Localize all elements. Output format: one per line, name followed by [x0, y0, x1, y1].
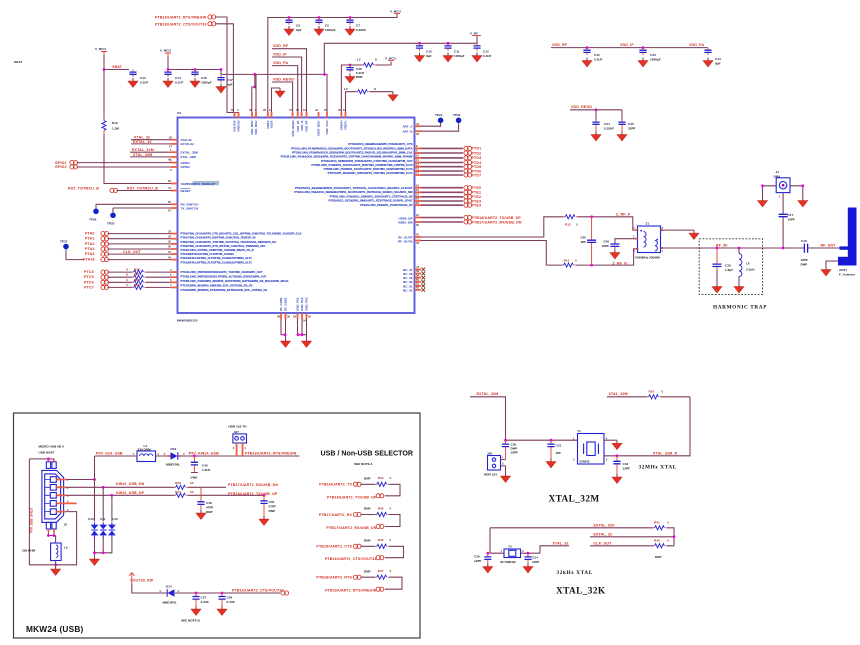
svg-text:TP27: TP27 [60, 240, 68, 244]
svg-text:PTB18/UART2_TX/USB_DP: PTB18/UART2_TX/USB_DP [228, 492, 278, 496]
svg-text:DNP: DNP [364, 507, 371, 511]
svg-text:NC_62: NC_62 [403, 288, 413, 292]
svg-text:U12: U12 [112, 517, 118, 521]
svg-text:28: 28 [263, 108, 266, 112]
svg-text:2: 2 [126, 283, 128, 287]
svg-text:C10: C10 [426, 50, 432, 54]
svg-text:ANT_A: ANT_A [402, 125, 413, 129]
svg-text:VDD_RF: VDD_RF [273, 44, 289, 48]
svg-text:1PF: 1PF [580, 240, 586, 244]
svg-text:KW24_USB_DN: KW24_USB_DN [116, 482, 145, 486]
svg-text:C6: C6 [296, 24, 300, 28]
svg-text:11: 11 [416, 158, 419, 162]
svg-text:62: 62 [416, 286, 419, 290]
svg-text:16: 16 [416, 188, 419, 192]
svg-text:6: 6 [255, 108, 257, 112]
svg-text:R12: R12 [112, 121, 118, 125]
svg-text:PTD2/LLWU_P13&P9/ADC0_SE20&SPI: PTD2/LLWU_P13&P9/ADC0_SE20&SPI0_BOUT/UAR… [292, 151, 412, 155]
svg-text:PTD7: PTD7 [472, 173, 482, 177]
svg-text:PTA2: PTA2 [85, 242, 95, 246]
svg-text:1: 1 [245, 446, 247, 450]
svg-text:PTC4/LLWU_P8/PCS0/PCS0/UART1_T: PTC4/LLWU_P8/PCS0/PCS0/UART1_TX/FTM0_CH3… [181, 270, 263, 274]
svg-text:EXTAL_32: EXTAL_32 [594, 532, 613, 536]
svg-text:C44: C44 [715, 57, 721, 61]
svg-text:PTD3: PTD3 [472, 156, 482, 160]
svg-text:Z_RF_P: Z_RF_P [616, 212, 631, 216]
svg-text:VREFL: VREFL [344, 120, 348, 130]
svg-text:V_MCU: V_MCU [160, 49, 172, 53]
svg-text:R34: R34 [175, 490, 181, 494]
svg-text:1.0UF: 1.0UF [202, 468, 211, 472]
svg-text:1000pF: 1000pF [325, 28, 336, 32]
svg-text:PTB17/UART2_RX/USB_DN: PTB17/UART2_RX/USB_DN [326, 526, 376, 530]
svg-text:CLK_OUT: CLK_OUT [123, 250, 142, 254]
svg-text:VDD_REGD: VDD_REGD [571, 105, 592, 109]
svg-text:PTA18/EXTAL0/FTM0_FLT2/FTM_CLK: PTA18/EXTAL0/FTM0_FLT2/FTM_CLKIN0 [181, 252, 235, 256]
svg-text:VDD_IF: VDD_IF [273, 52, 287, 56]
svg-text:PTB16/UART2_CTS/VOUT33: PTB16/UART2_CTS/VOUT33 [325, 557, 377, 561]
svg-text:C40: C40 [202, 464, 208, 468]
svg-text:34: 34 [168, 234, 171, 238]
svg-text:XTAL_32M: XTAL_32M [549, 495, 600, 505]
svg-text:1000pF: 1000pF [454, 54, 465, 58]
svg-text:XTAL_32M: XTAL_32M [181, 155, 197, 159]
svg-text:VSSA: VSSA [270, 120, 274, 129]
svg-text:VDD_IF: VDD_IF [620, 43, 634, 47]
svg-text:10PF: 10PF [788, 218, 796, 222]
svg-text:R47: R47 [378, 569, 384, 573]
svg-text:Y2: Y2 [508, 545, 512, 549]
svg-text:R13: R13 [565, 222, 571, 226]
svg-text:EXTAL32: EXTAL32 [181, 142, 194, 146]
svg-text:J27: J27 [234, 430, 239, 434]
svg-text:C42: C42 [594, 53, 600, 57]
svg-text:3: 3 [606, 457, 608, 461]
svg-text:0: 0 [576, 222, 578, 226]
svg-text:1: 1 [501, 549, 503, 553]
svg-text:12PF: 12PF [474, 559, 482, 563]
svg-text:PTB18/UART2_CTS/VOUT33: PTB18/UART2_CTS/VOUT33 [155, 22, 207, 26]
svg-text:D14: D14 [166, 585, 172, 589]
svg-text:1: 1 [133, 452, 135, 456]
svg-text:P5V_K24_USB: P5V_K24_USB [96, 451, 123, 455]
svg-text:PTC7: PTC7 [84, 285, 94, 289]
svg-text:PTA19/XTAL0/FTM1_FLT0/FTM_CLKI: PTA19/XTAL0/FTM1_FLT0/FTM_CLKIN1/LPTMR0_… [181, 256, 253, 260]
svg-text:C36: C36 [269, 500, 275, 504]
svg-text:EXTAL_32M: EXTAL_32M [132, 148, 154, 152]
svg-text:51: 51 [303, 108, 306, 112]
svg-text:R46: R46 [378, 538, 384, 542]
svg-text:PTB16/UART2_CTS/VOUT33: PTB16/UART2_CTS/VOUT33 [232, 588, 284, 592]
svg-text:TX_SWITCH: TX_SWITCH [181, 206, 199, 210]
svg-text:XTAL_32: XTAL_32 [553, 541, 569, 545]
svg-text:3: 3 [633, 249, 635, 253]
svg-text:52: 52 [296, 108, 299, 112]
svg-text:4: 4 [170, 268, 172, 272]
svg-text:1: 1 [502, 455, 504, 459]
svg-text:C39: C39 [725, 264, 731, 268]
svg-text:PTD3/LLWU_P14&ADC0_SE21&SPI0_P: PTD3/LLWU_P14&ADC0_SE21&SPI0_PCS1/UART2_… [281, 155, 413, 159]
svg-text:63: 63 [338, 108, 341, 112]
svg-text:R44: R44 [378, 476, 384, 480]
svg-text:2.2nH: 2.2nH [746, 268, 755, 272]
svg-text:V_MCU: V_MCU [390, 10, 402, 14]
svg-text:39: 39 [287, 315, 290, 319]
svg-text:9: 9 [416, 149, 418, 153]
svg-text:HDR 1X2: HDR 1X2 [484, 473, 497, 477]
svg-text:PTD4/ADC0_SE6B&SPI0_PCS2/UART0: PTD4/ADC0_SE6B&SPI0_PCS2/UART0_CTS/FTM0_… [321, 159, 413, 163]
svg-text:GPIO1: GPIO1 [55, 161, 67, 165]
svg-text:PTC5: PTC5 [84, 275, 94, 279]
svg-text:PTD6/LLWU_P15/SPI1_SOUT/UART0_: PTD6/LLWU_P15/SPI1_SOUT/UART0_RX/FTM0_CH… [324, 167, 413, 171]
svg-text:C11: C11 [454, 50, 460, 54]
svg-text:VDD_REGD: VDD_REGD [273, 77, 294, 81]
svg-text:PTC6: PTC6 [84, 280, 94, 284]
svg-text:DNP: DNP [356, 75, 363, 79]
svg-text:R29: R29 [134, 283, 140, 287]
svg-text:PTA3: PTA3 [85, 247, 95, 251]
svg-text:30: 30 [249, 108, 252, 112]
svg-text:26: 26 [169, 135, 172, 139]
svg-text:PTB17/UART2_RX/USB_DN: PTB17/UART2_RX/USB_DN [228, 483, 278, 487]
svg-text:C13: C13 [140, 76, 146, 80]
svg-text:33: 33 [168, 229, 171, 233]
svg-text:C43: C43 [650, 53, 656, 57]
svg-text:32kHz XTAL: 32kHz XTAL [557, 570, 593, 576]
svg-text:SEE NOTE B: SEE NOTE B [181, 619, 201, 623]
svg-text:PTE1: PTE1 [472, 191, 482, 195]
svg-text:330 OHM: 330 OHM [22, 549, 36, 553]
svg-text:PTB18/UART2_TX/USB_DP: PTB18/UART2_TX/USB_DP [472, 216, 522, 220]
svg-text:3: 3 [126, 278, 128, 282]
svg-text:C46: C46 [603, 239, 609, 243]
svg-text:RF_ANT: RF_ANT [821, 244, 837, 248]
svg-text:RF_GND1: RF_GND1 [279, 297, 283, 311]
svg-text:RF_GND2: RF_GND2 [284, 297, 288, 311]
svg-text:DNP: DNP [364, 569, 371, 573]
svg-text:HARMONIC TRAP: HARMONIC TRAP [713, 305, 767, 311]
svg-text:0.1UF: 0.1UF [483, 54, 492, 58]
svg-text:PTE4/LLWU_P2&SPI1_PCS0/TRACE_D: PTE4/LLWU_P2&SPI1_PCS0/TRACE_D0 [360, 203, 413, 207]
svg-text:4: 4 [237, 108, 239, 112]
svg-text:TP26: TP26 [89, 218, 97, 222]
svg-text:PTD1/LLWU_P14&P6/ADC0_SE19&SPI: PTD1/LLWU_P14&P6/ADC0_SE19&SPI0_BOUT/UAR… [291, 147, 412, 151]
svg-text:PTB19/UART2_CTS: PTB19/UART2_CTS [316, 545, 352, 549]
svg-text:V_MCU: V_MCU [95, 47, 107, 51]
svg-text:4: 4 [633, 226, 635, 230]
svg-text:U11: U11 [100, 517, 106, 521]
svg-text:RESET: RESET [181, 189, 191, 193]
svg-text:C27: C27 [201, 596, 207, 600]
svg-text:44: 44 [416, 122, 419, 126]
svg-text:ANT1: ANT1 [839, 268, 847, 272]
svg-text:C33: C33 [623, 462, 629, 466]
svg-text:GND_PA2: GND_PA2 [300, 297, 304, 311]
svg-text:PTC7/CMP0_IN1/SPI0_SIN/USB_SOF: PTC7/CMP0_IN1/SPI0_SIN/USB_SOF_OUT/I2S0_… [181, 284, 253, 288]
svg-text:10PF: 10PF [511, 450, 519, 454]
svg-text:8pF: 8pF [296, 28, 302, 32]
svg-text:0: 0 [662, 389, 664, 393]
svg-text:VDD_MCU: VDD_MCU [254, 121, 258, 135]
svg-text:43: 43 [416, 241, 419, 245]
svg-text:C12: C12 [483, 50, 489, 54]
svg-text:32PF: 32PF [628, 127, 636, 131]
svg-text:PTA19/XTAL0/FTM1_FLT0/FTM_CLKI: PTA19/XTAL0/FTM1_FLT0/FTM_CLKIN1/LPTMR0_… [181, 260, 253, 264]
svg-text:A: A [164, 452, 166, 456]
svg-text:PTE3/ADC1_SE7&SPI1_SIN/UART1_R: PTE3/ADC1_SE7&SPI1_SIN/UART1_RTS/TRACE_D… [328, 199, 412, 203]
svg-text:60: 60 [416, 277, 419, 281]
svg-text:330 OHM: 330 OHM [138, 448, 152, 452]
svg-text:57: 57 [289, 108, 292, 112]
svg-text:1000pF: 1000pF [201, 81, 212, 85]
svg-text:C31: C31 [556, 443, 562, 447]
svg-text:USB HOST: USB HOST [39, 451, 55, 455]
svg-text:TAMPER/RTC_WAKEUP: TAMPER/RTC_WAKEUP [181, 182, 216, 186]
svg-text:DNP: DNP [269, 509, 276, 513]
svg-text:33: 33 [190, 481, 194, 485]
svg-text:L6: L6 [746, 262, 750, 266]
svg-text:32MHz XTAL: 32MHz XTAL [639, 465, 677, 471]
svg-text:MICRO USB AB 5: MICRO USB AB 5 [39, 445, 65, 449]
svg-text:PTB18/UART2_RTS: PTB18/UART2_RTS [316, 576, 352, 580]
svg-text:12: 12 [416, 162, 419, 166]
svg-text:PTA18: PTA18 [83, 258, 95, 262]
svg-text:DNP: DNP [364, 477, 371, 481]
svg-text:PTA4: PTA4 [85, 252, 95, 256]
svg-text:40: 40 [168, 255, 171, 259]
svg-text:2: 2 [233, 446, 235, 450]
svg-text:PTA4/LLWU_P3/TSI0_CH5/FTM0_CH1: PTA4/LLWU_P3/TSI0_CH5/FTM0_CH1/NMI_B/EZP… [181, 248, 254, 252]
svg-text:46: 46 [416, 132, 419, 136]
svg-text:36: 36 [168, 245, 171, 249]
svg-text:MKW24D512V: MKW24D512V [177, 319, 199, 323]
svg-text:TP21: TP21 [435, 113, 443, 117]
svg-text:GND: GND [191, 476, 199, 480]
svg-text:C48: C48 [206, 501, 212, 505]
svg-text:38: 38 [277, 315, 280, 319]
svg-text:3: 3 [522, 549, 524, 553]
svg-text:55: 55 [324, 108, 327, 112]
svg-text:C7: C7 [356, 24, 360, 28]
svg-text:DNP: DNP [206, 510, 213, 514]
svg-text:VDD_IF: VDD_IF [300, 120, 304, 131]
svg-text:12PF: 12PF [623, 467, 631, 471]
svg-text:65: 65 [168, 200, 171, 204]
svg-text:Z_RF_N: Z_RF_N [612, 261, 627, 265]
svg-text:PTE4: PTE4 [472, 204, 482, 208]
svg-text:GPIO1: GPIO1 [181, 161, 191, 165]
svg-text:CLK_OUT: CLK_OUT [594, 541, 613, 545]
svg-text:20: 20 [416, 223, 419, 227]
svg-text:2.2UF: 2.2UF [201, 600, 210, 604]
svg-text:12PF: 12PF [532, 560, 540, 564]
svg-text:A: A [178, 589, 180, 593]
svg-text:VDD_PA: VDD_PA [273, 61, 288, 65]
svg-text:9: 9 [126, 268, 128, 272]
svg-text:42: 42 [416, 233, 419, 237]
svg-text:0.1UF: 0.1UF [594, 58, 603, 62]
svg-text:8pF: 8pF [227, 83, 233, 87]
svg-text:PTE0: PTE0 [472, 186, 482, 190]
svg-text:RF_OUTN: RF_OUTN [398, 239, 412, 243]
svg-text:R14: R14 [564, 258, 570, 262]
svg-text:D16: D16 [171, 447, 177, 451]
svg-text:VBAT_MCU: VBAT_MCU [317, 121, 321, 137]
svg-text:DNP: DNP [655, 555, 662, 559]
svg-text:PTA0: PTA0 [85, 232, 95, 236]
svg-text:10: 10 [416, 154, 419, 158]
svg-text:J5: J5 [64, 523, 68, 527]
svg-text:PTE0/ADC1_SE4&SE16/SPI1_PCS1/U: PTE0/ADC1_SE4&SE16/SPI1_PCS1/UART1_TX/TR… [295, 186, 413, 190]
svg-text:GND_PA3: GND_PA3 [305, 297, 309, 311]
svg-text:R26: R26 [134, 268, 140, 272]
svg-text:3: 3 [170, 168, 172, 172]
svg-text:EXTAL_32: EXTAL_32 [133, 140, 152, 144]
svg-text:53: 53 [293, 315, 296, 319]
svg-text:14: 14 [416, 171, 419, 175]
svg-text:TP25: TP25 [107, 222, 115, 226]
svg-text:KW24_USB_DP: KW24_USB_DP [116, 491, 145, 495]
svg-text:VDD_RF: VDD_RF [552, 43, 568, 47]
svg-text:PTA3/TSI0_CH4/UART0_RTS_B/FTM0: PTA3/TSI0_CH4/UART0_RTS_B/FTM0_CH0/JTAG_… [181, 244, 267, 248]
svg-text:U10: U10 [88, 517, 94, 521]
svg-text:GPIO2: GPIO2 [181, 165, 191, 169]
svg-text:VDD_REGD: VDD_REGD [291, 121, 295, 137]
svg-text:C28: C28 [227, 596, 233, 600]
svg-text:PTB16/UART2_RTS/VREGIN: PTB16/UART2_RTS/VREGIN [325, 589, 377, 593]
svg-text:C46: C46 [201, 76, 207, 80]
svg-text:XTAL_32K: XTAL_32K [556, 587, 606, 597]
svg-text:PTA2/TSI0_CH3/UART0_TX/FTM0_CH: PTA2/TSI0_CH3/UART0_TX/FTM0_CH7/JTAG_TDO… [181, 240, 278, 244]
svg-text:C: C [183, 452, 185, 456]
svg-text:8pF: 8pF [426, 54, 432, 58]
svg-text:17: 17 [416, 193, 419, 197]
svg-text:PTB16/UART2_TX: PTB16/UART2_TX [319, 483, 352, 487]
svg-text:PTC6/LLWU_P10/CMP0_IN0/SPI0_SO: PTC6/LLWU_P10/CMP0_IN0/SPI0_SOUT/PDB0_EX… [181, 279, 289, 283]
svg-text:PTE2/LLWU_P1&ADC1_SE6/SPI1_SCK: PTE2/LLWU_P1&ADC1_SE6/SPI1_SCK/UART1_CTS… [330, 194, 413, 198]
svg-text:PTA1/TSI0_CH2/UART0_RX/FTM0_CH: PTA1/TSI0_CH2/UART0_RX/FTM0_CH6/JTAG_TDI… [181, 236, 256, 240]
svg-text:54: 54 [303, 319, 306, 323]
svg-text:HEAT: HEAT [14, 60, 22, 64]
svg-text:VDD_RF: VDD_RF [305, 120, 309, 132]
svg-text:DNP: DNP [801, 262, 808, 266]
svg-text:18: 18 [416, 197, 419, 201]
svg-text:5: 5 [170, 273, 172, 277]
svg-text:VDD_PA: VDD_PA [689, 43, 704, 47]
svg-text:1.8pF: 1.8pF [725, 268, 733, 272]
svg-text:61: 61 [416, 282, 419, 286]
svg-text:V_RF: V_RF [470, 32, 478, 36]
svg-text:15: 15 [416, 183, 419, 187]
svg-text:L6: L6 [64, 546, 68, 550]
svg-text:TP22: TP22 [453, 113, 461, 117]
svg-text:R33: R33 [175, 481, 181, 485]
svg-text:C34: C34 [604, 122, 610, 126]
svg-text:EXTAL_32K: EXTAL_32K [594, 523, 616, 527]
svg-text:GND_PA1: GND_PA1 [296, 297, 300, 311]
svg-text:37: 37 [168, 250, 171, 254]
svg-text:0: 0 [667, 539, 669, 543]
svg-text:21: 21 [416, 213, 419, 217]
svg-text:32.768KHZ: 32.768KHZ [500, 560, 516, 564]
svg-text:PTC0/CMP0_IN0/SPI0_PCS4/PDB0_E: PTC0/CMP0_IN0/SPI0_PCS4/PDB0_EXTRG/USB_S… [181, 288, 268, 292]
svg-text:47PF: 47PF [206, 506, 214, 510]
svg-text:F_Antenna: F_Antenna [839, 273, 855, 277]
svg-text:MKW24 (USB): MKW24 (USB) [26, 624, 84, 634]
svg-text:47PF: 47PF [269, 505, 277, 509]
svg-text:55: 55 [308, 315, 311, 319]
svg-text:P5V_KW24_USB: P5V_KW24_USB [189, 451, 219, 455]
svg-text:1: 1 [170, 148, 172, 152]
svg-text:ANT_B: ANT_B [402, 129, 413, 133]
svg-text:C18: C18 [801, 239, 807, 243]
svg-text:MBE1P0L: MBE1P0L [166, 462, 180, 466]
svg-text:PTA1: PTA1 [85, 237, 95, 241]
svg-text:13: 13 [416, 167, 419, 171]
svg-text:R28: R28 [134, 278, 140, 282]
svg-text:Y1: Y1 [577, 429, 581, 433]
svg-text:27: 27 [169, 145, 172, 149]
svg-text:PTB16/UART2_RTS/VREGIN: PTB16/UART2_RTS/VREGIN [245, 451, 297, 455]
svg-text:USB0_DM: USB0_DM [398, 221, 413, 225]
svg-text:C35: C35 [628, 122, 634, 126]
svg-text:10PF: 10PF [602, 244, 610, 248]
svg-text:9: 9 [269, 108, 271, 112]
svg-text:2400MHz 50OHM: 2400MHz 50OHM [635, 256, 660, 260]
svg-text:2: 2 [170, 158, 172, 162]
svg-text:HDR 1X2 TH: HDR 1X2 TH [228, 425, 247, 429]
svg-text:47: 47 [416, 265, 419, 269]
svg-text:GPIO2: GPIO2 [55, 165, 67, 169]
svg-text:R41: R41 [654, 520, 660, 524]
svg-text:VREGIN: VREGIN [237, 121, 241, 132]
svg-text:0: 0 [375, 58, 377, 62]
svg-text:PTD0/ADC0_SE8&BIAS&SPI0_PCS4/U: PTD0/ADC0_SE8&BIAS&SPI0_PCS4/UART1_CTS [348, 142, 412, 146]
svg-text:67: 67 [168, 209, 171, 213]
svg-text:58: 58 [416, 269, 419, 273]
svg-text:PTC4: PTC4 [84, 270, 94, 274]
svg-text:2: 2 [158, 452, 160, 456]
svg-text:PTB17/UART2_RX/USB_DN: PTB17/UART2_RX/USB_DN [472, 220, 522, 224]
svg-text:Z1: Z1 [646, 222, 650, 226]
svg-text:PTB17/UART2_RX: PTB17/UART2_RX [319, 513, 353, 517]
svg-text:2: 2 [502, 462, 504, 466]
svg-text:0.33UF: 0.33UF [356, 28, 366, 32]
svg-text:C17: C17 [788, 213, 794, 217]
svg-text:0: 0 [390, 569, 392, 573]
svg-text:PTB16/UART2_RTS/VREGIN: PTB16/UART2_RTS/VREGIN [155, 15, 207, 19]
svg-text:PTE1/LLWU_P0&ADC1_SE5&SE17/SPI: PTE1/LLWU_P0&ADC1_SE5&SE17/SPI1_SOUT/UAR… [294, 190, 412, 194]
svg-text:C45: C45 [580, 236, 586, 240]
svg-text:1: 1 [779, 195, 781, 199]
svg-text:0.33UF: 0.33UF [604, 127, 614, 131]
svg-text:SEE NOTE A: SEE NOTE A [354, 462, 373, 466]
svg-text:1PF: 1PF [556, 451, 562, 455]
svg-text:0: 0 [390, 538, 392, 542]
svg-text:0: 0 [390, 476, 392, 480]
svg-text:EXTAL_32M: EXTAL_32M [181, 150, 199, 154]
svg-text:XTAL_32M: XTAL_32M [609, 392, 628, 396]
svg-text:R16: R16 [649, 389, 655, 393]
svg-text:41: 41 [168, 186, 171, 190]
svg-text:VDD_VCO: VDD_VCO [325, 120, 329, 135]
svg-text:35: 35 [168, 240, 171, 244]
svg-text:8pF: 8pF [715, 62, 721, 66]
svg-text:0: 0 [374, 87, 376, 91]
svg-text:0.1UF: 0.1UF [175, 81, 184, 85]
svg-text:C14: C14 [175, 76, 181, 80]
svg-text:J26: J26 [487, 451, 492, 455]
